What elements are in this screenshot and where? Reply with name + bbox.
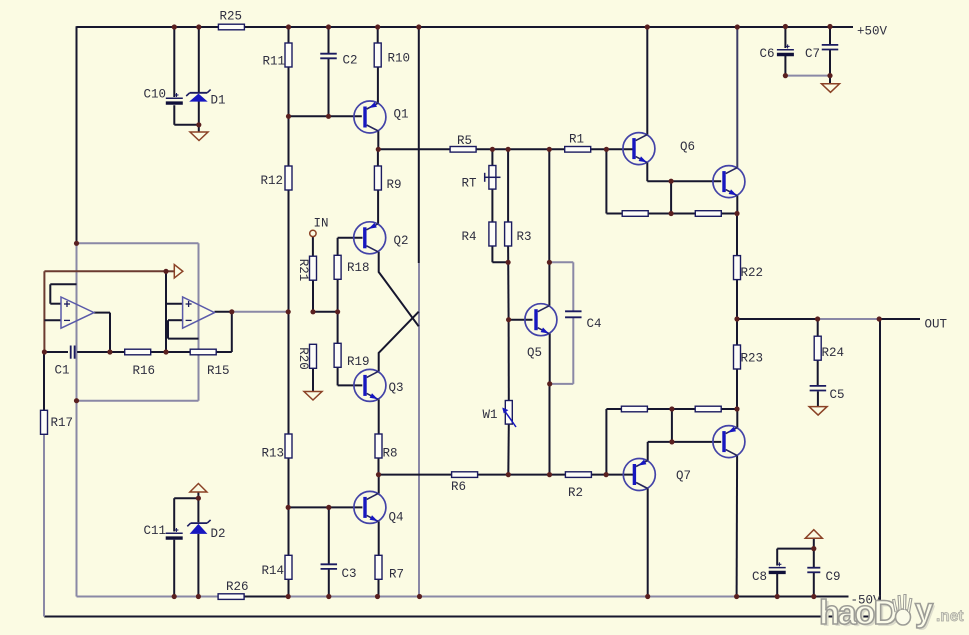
resistor R26: [218, 580, 248, 599]
junction C4 top node: [547, 260, 552, 265]
wire Q6 collector to +50V: [646, 27, 648, 135]
junction rail-Q7b: [734, 594, 739, 599]
svg-text:R12: R12: [261, 174, 284, 188]
junction R3 top: [506, 147, 511, 152]
resistor R9: [374, 166, 401, 192]
resistor R7: [375, 555, 404, 581]
wire C7 branch: [829, 27, 831, 84]
wire Q7b emitter to row: [736, 409, 738, 428]
junction row bottom right: [734, 406, 739, 411]
wire R22 column to OUT node: [736, 214, 738, 320]
potentiometer W1: [483, 401, 517, 428]
resistor emitter resistor (bottom left): [621, 406, 647, 412]
svg-text:D2: D2: [211, 527, 226, 541]
svg-text:Q5: Q5: [527, 346, 542, 360]
resistor R18: [334, 255, 369, 279]
svg-text:OUT: OUT: [925, 318, 948, 332]
svg-text:.net: .net: [936, 608, 964, 625]
wire Q7b collector to -50V: [736, 456, 739, 597]
svg-text:R6: R6: [451, 480, 466, 494]
wire center vertical from +50V (dark): [418, 27, 420, 263]
svg-text:C11: C11: [144, 524, 167, 538]
resistor R23: [734, 345, 764, 369]
wire Q7 emitter to Q7b base: [648, 442, 722, 461]
wire IN to R21: [312, 237, 314, 257]
svg-text:C10: C10: [144, 88, 167, 102]
junction rail-C11: [172, 594, 177, 599]
wire R21 to node: [312, 280, 314, 312]
junction C11-D2-gnd: [196, 496, 201, 501]
capacitor C1: [55, 346, 75, 378]
junction RT top: [490, 147, 495, 152]
capacitor C2: [320, 54, 357, 68]
svg-text:R26: R26: [226, 580, 249, 594]
resistor R5: [450, 134, 476, 152]
wire C1 - R16 - R15 line: [44, 312, 231, 352]
wire Q6 base node down to emitter resistor row: [605, 149, 607, 213]
junction left loop bottom: [74, 398, 79, 403]
capacitor C3: [321, 564, 357, 581]
junction R13-R14-Q4base: [286, 505, 291, 510]
wire +50V top rail: [77, 26, 854, 28]
svg-text:R10: R10: [388, 52, 411, 66]
resistor R2: [565, 472, 591, 500]
wire C6 branch: [785, 27, 830, 76]
resistor R6: [451, 472, 478, 494]
wire -50V bottom rail: [77, 596, 849, 598]
wire Q6b collector to +50V: [736, 27, 738, 168]
svg-text:R14: R14: [262, 564, 285, 578]
capacitor C6 (electrolytic): [760, 44, 794, 61]
wire R20 down to ground: [312, 368, 314, 391]
svg-text:R23: R23: [741, 352, 764, 366]
transistor Q6: [623, 133, 695, 165]
svg-text:C5: C5: [830, 388, 845, 402]
resistor R25: [218, 10, 244, 30]
wire R9 to Q2 emitter: [377, 149, 379, 224]
capacitor C8 (electrolytic): [752, 562, 786, 584]
ground below R20: [304, 392, 322, 401]
junction Q5 collector top: [547, 147, 552, 152]
thermistor RT: [462, 166, 501, 191]
junction Q7 emitter node: [669, 439, 674, 444]
wire C10 branch: [174, 27, 199, 125]
wire node A horizontal (Q1 collector - R5 - R1 - Q6 base): [378, 148, 633, 150]
wire Q7 collector to -50V: [647, 489, 649, 597]
junction input net: [163, 269, 168, 274]
ground below C6 C7: [822, 84, 840, 93]
junction R4-R3: [506, 260, 511, 265]
port IN: [310, 230, 316, 236]
svg-text:C2: C2: [343, 54, 358, 68]
svg-text:IN: IN: [314, 217, 329, 231]
junction U2 out: [229, 309, 234, 314]
wire Q5 emitter down: [549, 334, 551, 475]
svg-text:C1: C1: [55, 364, 70, 378]
junction W1 bottom: [506, 472, 511, 477]
junction rail-C8: [775, 594, 780, 599]
wire U1 + input loop: [50, 284, 76, 303]
wire Q1 collector to node: [377, 131, 379, 149]
junction Q6 emitter node: [669, 179, 674, 184]
wire emitter resistor row (bottom): [606, 409, 737, 475]
svg-text:Q4: Q4: [389, 511, 404, 525]
junction Q6 base: [604, 147, 609, 152]
junction rail-C10: [172, 24, 177, 29]
wire R3 - Q5 base - W1 column: [508, 149, 532, 474]
wire R10 to Q1 emitter: [377, 27, 379, 103]
junction Q5 emitter-C4: [547, 381, 552, 386]
wire R24 - C5 branch: [817, 319, 819, 407]
junction R11-R12-Q1base: [286, 114, 291, 119]
wire OUT line: [737, 318, 920, 320]
junction rail-center: [416, 24, 421, 29]
ground below C5: [809, 407, 827, 416]
junction R21-R20: [310, 309, 315, 314]
svg-text:Q1: Q1: [394, 108, 409, 122]
svg-text:R15: R15: [207, 364, 230, 378]
junction rail-D1: [196, 24, 201, 29]
svg-text:R13: R13: [262, 447, 285, 461]
wire R8 to node C: [378, 458, 380, 475]
junction OUT-feedback: [877, 316, 882, 321]
svg-text:R20: R20: [296, 347, 310, 370]
wire C9 branch and upper ground stub: [813, 538, 815, 597]
transistor Q7: [623, 459, 691, 491]
capacitor C7: [805, 45, 838, 61]
junction C3-Q4base: [326, 505, 331, 510]
junction rail-C9: [811, 594, 816, 599]
junction rail-C2: [326, 24, 331, 29]
svg-text:C3: C3: [342, 567, 357, 581]
svg-text:R5: R5: [457, 134, 472, 148]
junction rail-C7: [827, 24, 832, 29]
junction C6 bottom: [783, 73, 788, 78]
wire Q2 collector diagonal to center vertical: [379, 252, 419, 326]
wire RT - R4 branch: [492, 149, 508, 262]
wire U1 - input: [44, 319, 61, 321]
svg-text:C4: C4: [587, 317, 602, 331]
junction C8-C9-gnd: [811, 546, 816, 551]
wire Q6 emitter to Q6b base: [647, 163, 721, 182]
junction R8-R6-Q4: [376, 472, 381, 477]
svg-text:Q2: Q2: [394, 234, 409, 248]
svg-text:C6: C6: [760, 47, 775, 61]
svg-text:D1: D1: [211, 94, 226, 108]
ground above D2: [190, 484, 207, 493]
resistor emitter resistor (top right): [695, 211, 721, 217]
wire C2 branch: [328, 27, 330, 116]
resistor emitter resistor (bottom right): [695, 406, 721, 412]
wire Q3 collector diagonal to center vertical: [379, 312, 419, 372]
svg-text:R19: R19: [347, 355, 370, 369]
svg-text:R22: R22: [741, 266, 764, 280]
junction R18-R19: [335, 309, 340, 314]
svg-text:R1: R1: [569, 133, 584, 147]
diode D2 (zener): [187, 520, 225, 541]
wire Q3 emitter to R8: [378, 399, 380, 434]
wire Q2 base to R18: [338, 238, 363, 256]
transistor Q7b (output PNP): [713, 426, 745, 458]
svg-text:R25: R25: [220, 10, 243, 24]
wire Q5 collector column: [548, 149, 550, 306]
wire feedback bottom line OUT to C1 side: [44, 319, 880, 617]
resistor R20: [296, 344, 317, 369]
wire node B horizontal: [313, 311, 338, 313]
svg-text:R11: R11: [263, 55, 286, 69]
resistor R12: [261, 166, 293, 190]
resistor R17: [41, 410, 74, 434]
resistor R13: [262, 434, 293, 461]
junction OUT-R24: [815, 316, 820, 321]
wire C8 branch: [777, 549, 814, 597]
junction rail-C6: [783, 24, 788, 29]
wire C3 branch: [328, 507, 330, 596]
capacitor C4: [565, 311, 601, 331]
junction rail-Q6b: [735, 24, 740, 29]
svg-text:W1: W1: [483, 408, 498, 422]
wire Q6b emitter to row: [736, 196, 738, 214]
resistor R24: [814, 336, 844, 360]
wire gray loop around U2: [77, 243, 199, 400]
diode D1 (zener): [186, 90, 225, 108]
junction left loop top: [74, 241, 79, 246]
svg-text:y: y: [915, 591, 934, 628]
wire U2 - input hook: [168, 320, 199, 338]
transistor Q3: [354, 369, 404, 401]
svg-text:R2: R2: [568, 486, 583, 500]
wire C4 branch (gray): [549, 262, 573, 384]
resistor R11: [263, 43, 293, 69]
svg-text:R3: R3: [517, 230, 532, 244]
svg-text:R9: R9: [387, 178, 402, 192]
transistor Q6b (output NPN): [713, 166, 745, 198]
resistor emitter resistor (top left): [622, 211, 648, 217]
junction rail-center: [417, 594, 422, 599]
capacitor C10 (electrolytic): [144, 88, 183, 104]
junction C7 bottom: [827, 73, 832, 78]
watermark haodiy.net: [819, 591, 964, 634]
svg-text:R8: R8: [383, 447, 398, 461]
junction C2-Q1base: [326, 114, 331, 119]
junction R16-R15: [163, 349, 168, 354]
svg-text:haoD: haoD: [819, 594, 897, 632]
svg-text:C9: C9: [826, 570, 841, 584]
transistor Q1: [354, 101, 409, 133]
svg-text:R7: R7: [389, 568, 404, 582]
junction rail-R11: [286, 24, 291, 29]
capacitor C11 (electrolytic): [144, 524, 183, 538]
transistor Q4: [354, 491, 404, 524]
wire left vertical (dark upper part): [76, 26, 78, 243]
transistor Q2: [354, 222, 409, 254]
wire Q4 collector: [378, 475, 380, 494]
junction rail-D2: [196, 594, 201, 599]
wire Q4 emitter to R7: [378, 521, 380, 555]
resistor R14: [262, 555, 293, 579]
svg-text:R24: R24: [822, 346, 845, 360]
junction row top right: [734, 211, 739, 216]
resistor R1: [565, 133, 591, 153]
junction rail-C3: [326, 594, 331, 599]
junction C1 left: [42, 349, 47, 354]
svg-text:C8: C8: [752, 570, 767, 584]
junction U2 out to column: [286, 309, 291, 314]
junction rail-Q7: [645, 594, 650, 599]
wire Q1 base: [289, 115, 362, 117]
junction row top mid: [669, 211, 674, 216]
resistor R16: [125, 349, 155, 378]
junction rail-R14: [286, 594, 291, 599]
op-amp U2: [183, 297, 215, 328]
svg-text:R4: R4: [462, 230, 477, 244]
wire op-amp input net (brown): [44, 271, 174, 352]
ground below D1: [190, 132, 208, 141]
junction U1 out: [107, 349, 112, 354]
svg-text:+50V: +50V: [857, 25, 888, 39]
svg-text:Q6: Q6: [680, 140, 695, 154]
junction rail-Q6: [645, 24, 650, 29]
resistor R19: [334, 343, 369, 369]
wire R7 to -50V: [378, 579, 380, 596]
wire D1 branch: [198, 27, 200, 132]
wire center vertical to -50V (gray): [418, 263, 420, 597]
resistor R3: [505, 222, 532, 246]
resistor R21: [296, 256, 317, 281]
ground above C8 C9: [805, 530, 822, 539]
wire emitter resistor row (top): [606, 181, 737, 213]
wire left vertical (gray lower part): [76, 243, 78, 596]
capacitor C5: [810, 386, 845, 402]
junction rail-R10: [375, 24, 380, 29]
wire R17 branch: [43, 352, 45, 617]
port direction arrow: [174, 265, 183, 279]
junction OUT-R22-R23: [734, 316, 739, 321]
junction Q1 collector node: [376, 147, 381, 152]
svg-text:C7: C7: [805, 47, 820, 61]
op-amp U1: [61, 297, 94, 328]
wire node C horizontal (R6 - R2 - Q7 base): [379, 474, 634, 476]
wire R23 column: [736, 319, 738, 409]
junction Q5 base: [506, 317, 511, 322]
junction Q7 base: [604, 472, 609, 477]
resistor R4: [462, 222, 496, 246]
svg-text:R17: R17: [51, 416, 74, 430]
wire U1 output: [94, 313, 110, 352]
wire U2 + input: [166, 271, 183, 352]
junction rail-R7: [375, 594, 380, 599]
resistor R22: [734, 256, 764, 280]
svg-text:R21: R21: [296, 259, 310, 282]
svg-text:Q3: Q3: [389, 381, 404, 395]
wire U2 output to R12 column (gray): [215, 311, 289, 313]
junction Q5 emitter node: [547, 472, 552, 477]
wire R19 to Q3 base: [338, 312, 363, 386]
transistor Q5: [525, 304, 557, 360]
svg-text:R16: R16: [133, 364, 156, 378]
junction C10-D1-gnd: [196, 122, 201, 127]
capacitor C9: [807, 568, 840, 584]
svg-text:R18: R18: [347, 261, 370, 275]
wire R11-R12-R13-R14 column: [288, 27, 290, 597]
wire D2 branch: [197, 498, 199, 596]
resistor R8: [375, 434, 398, 461]
wire Q4 base: [288, 506, 362, 508]
junction row bottom mid: [669, 406, 674, 411]
resistor R15: [190, 349, 229, 378]
resistor R10: [374, 43, 410, 67]
wire C11 branch: [174, 492, 198, 597]
svg-text:Q7: Q7: [676, 469, 691, 483]
wire R18 to node B: [337, 279, 339, 312]
svg-text:RT: RT: [462, 177, 478, 191]
